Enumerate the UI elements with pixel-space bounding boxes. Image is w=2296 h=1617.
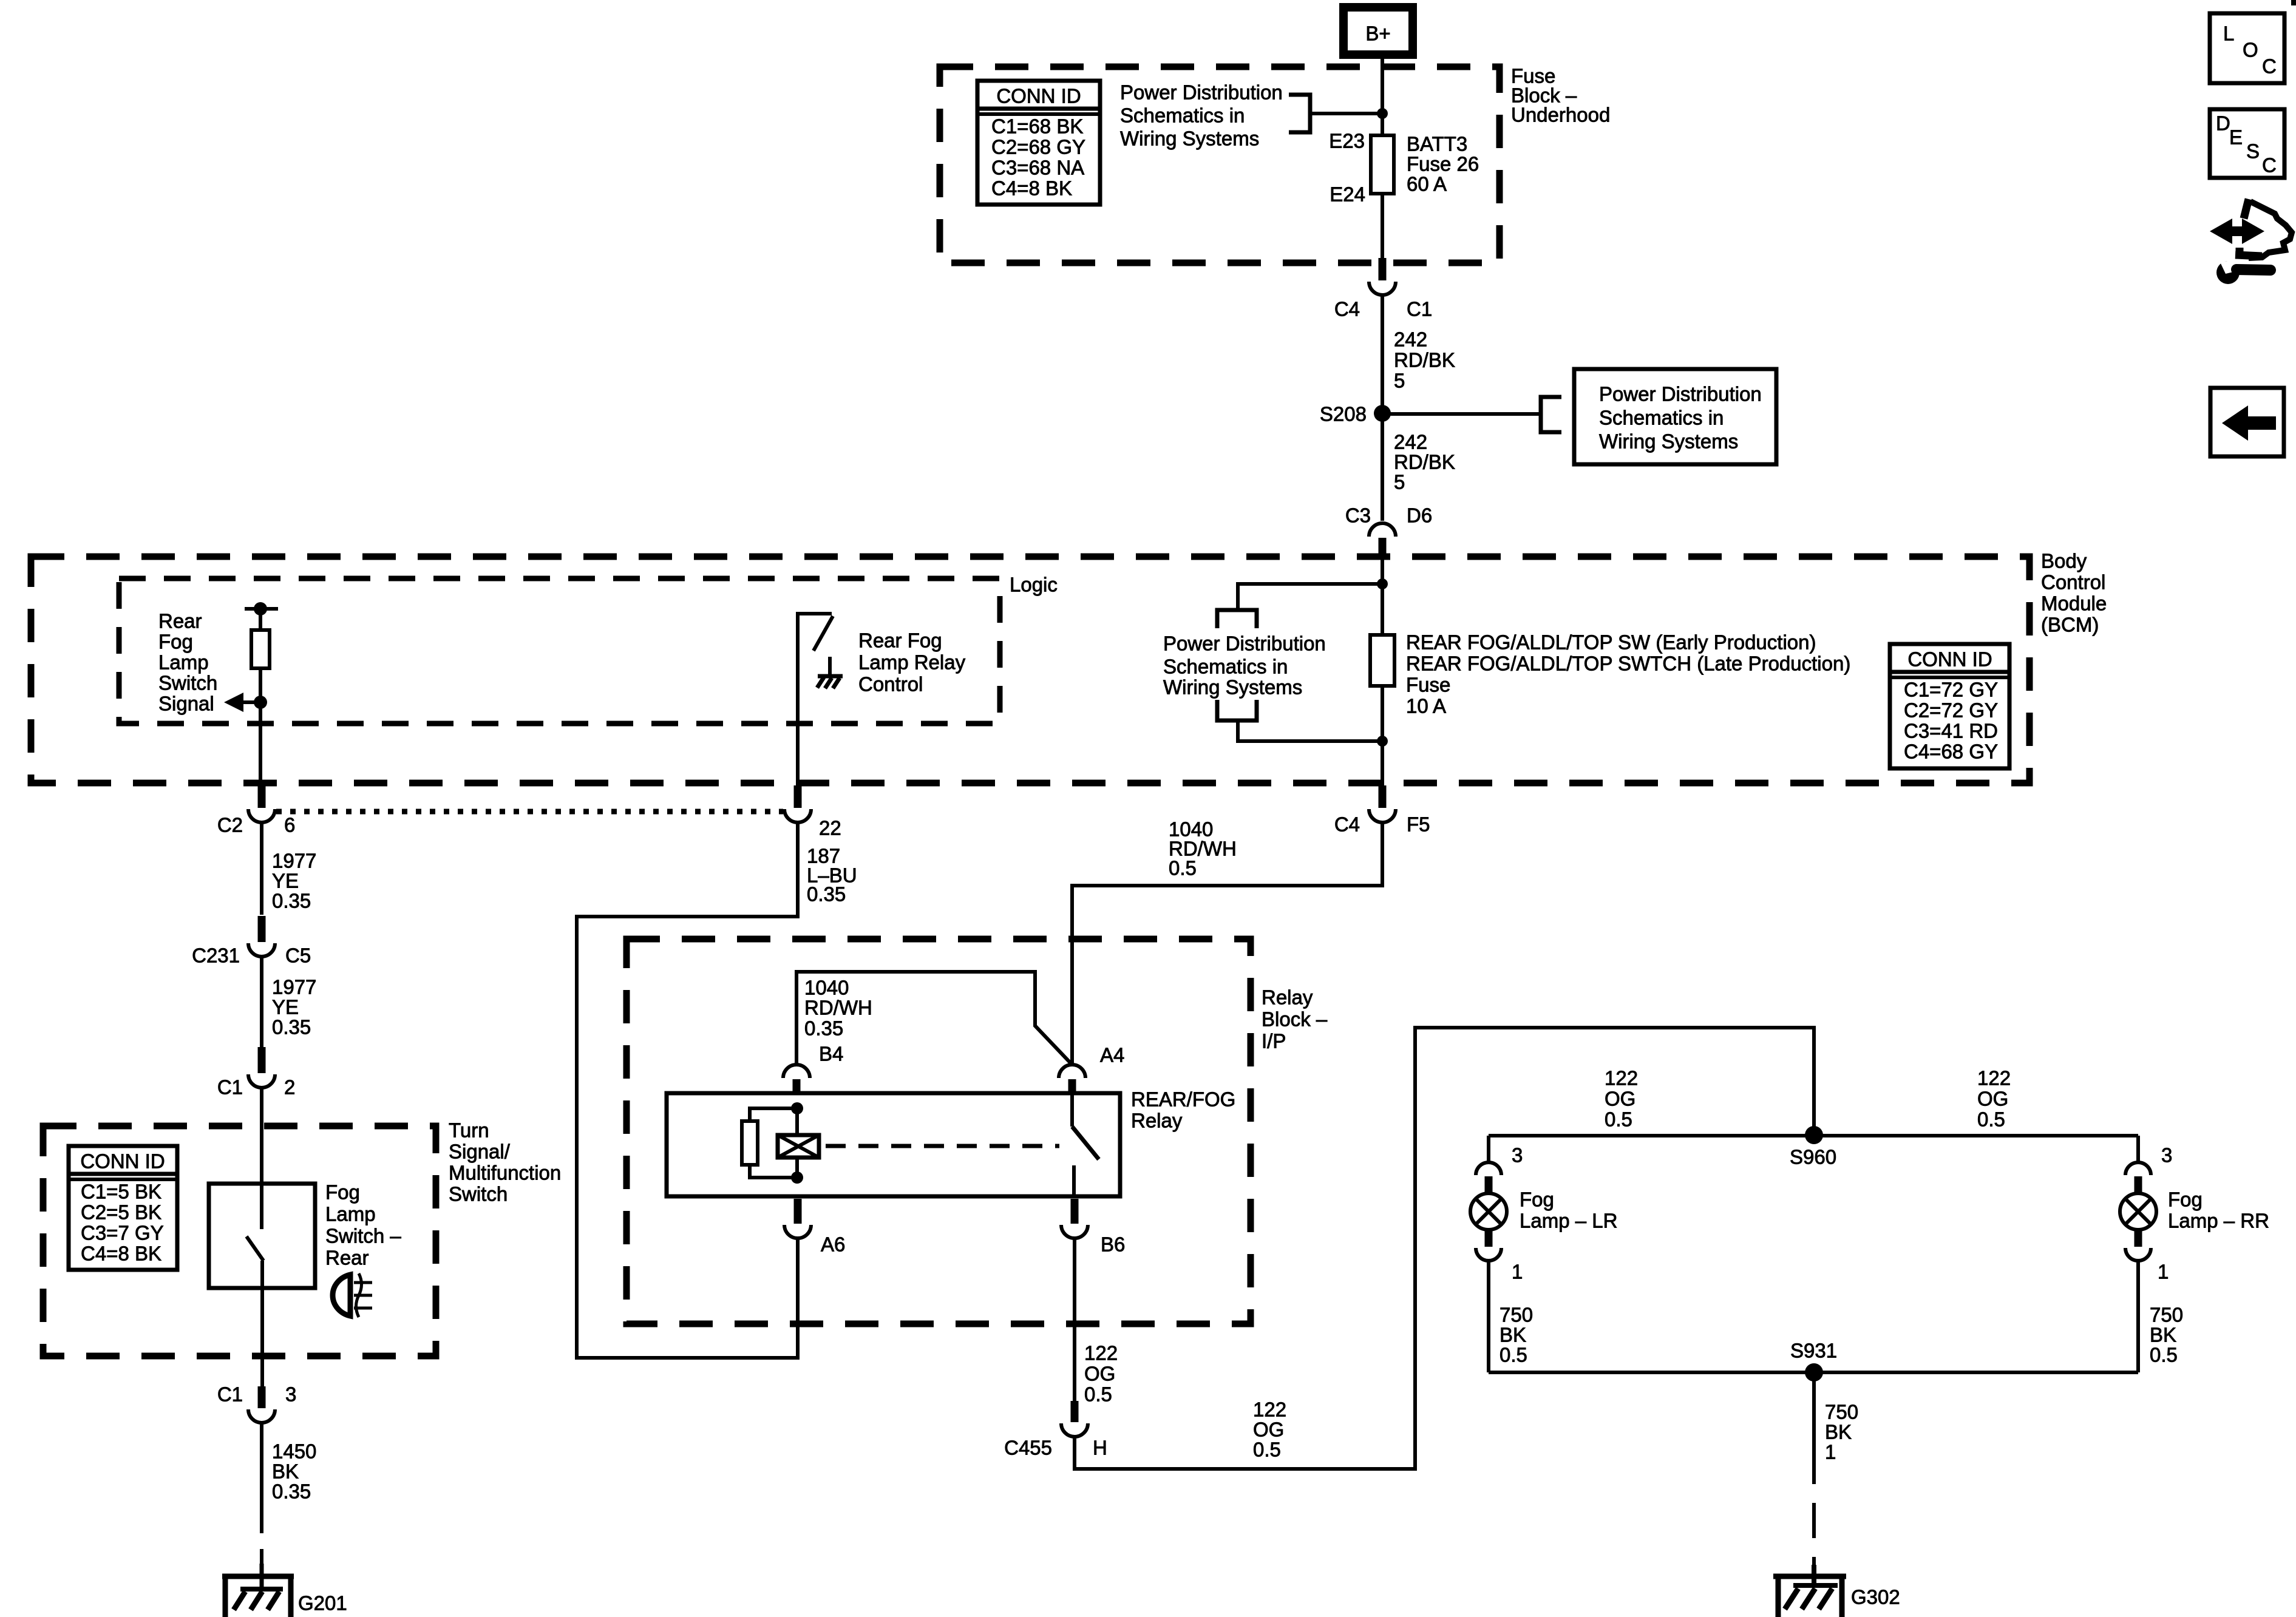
svg-text:O: O <box>2243 39 2258 61</box>
svg-text:Switch: Switch <box>158 672 217 694</box>
svg-text:Body: Body <box>2041 550 2087 572</box>
wire C5 to C1 <box>260 957 263 1047</box>
BCM internal feed junction bottom <box>1238 686 1388 785</box>
svg-text:0.35: 0.35 <box>272 1016 311 1039</box>
svg-text:Turn: Turn <box>449 1119 489 1142</box>
svg-text:Block –: Block – <box>1262 1008 1328 1031</box>
svg-text:Switch –: Switch – <box>325 1225 401 1247</box>
svg-text:S208: S208 <box>1320 403 1367 425</box>
fog lamp RR terminal 1 label <box>2158 1261 2169 1283</box>
svg-text:B4: B4 <box>819 1043 843 1065</box>
svg-text:Fuse 26: Fuse 26 <box>1407 153 1479 175</box>
rear fog lamp switch signal resistor circuit <box>224 602 278 785</box>
svg-text:3: 3 <box>2161 1144 2172 1167</box>
fuse BATT3 value label <box>1407 133 1479 195</box>
svg-text:Fog: Fog <box>1520 1188 1554 1211</box>
svg-text:C455: C455 <box>1004 1437 1052 1459</box>
svg-text:2: 2 <box>284 1076 295 1099</box>
power distribution reference text top <box>1120 81 1283 150</box>
wire label 750 BK 0.5 right <box>2150 1304 2183 1366</box>
wire B6 to C455 <box>1073 1238 1076 1401</box>
wire label 750 BK 0.5 left <box>1500 1304 1533 1366</box>
svg-text:122: 122 <box>1084 1342 1118 1364</box>
svg-text:Schematics in: Schematics in <box>1599 407 1724 429</box>
svg-text:F5: F5 <box>1407 813 1430 836</box>
power distribution box text <box>1599 383 1762 453</box>
relay terminal A6 <box>784 1199 845 1256</box>
REAR/FOG relay label <box>1131 1088 1235 1132</box>
svg-text:OG: OG <box>1605 1088 1635 1110</box>
wire pin2 into switch <box>260 1088 263 1229</box>
svg-text:YE: YE <box>272 996 299 1019</box>
svg-text:Module: Module <box>2041 592 2107 615</box>
svg-text:3: 3 <box>1512 1144 1523 1167</box>
svg-text:0.5: 0.5 <box>1084 1383 1112 1406</box>
svg-text:C1=68 BK: C1=68 BK <box>991 115 1083 138</box>
svg-text:750: 750 <box>1825 1401 1858 1423</box>
svg-text:5: 5 <box>1394 471 1405 493</box>
svg-text:Lamp: Lamp <box>158 651 209 674</box>
svg-text:C4=68 GY: C4=68 GY <box>1904 741 1998 763</box>
svg-text:C3: C3 <box>1345 504 1371 527</box>
svg-text:OG: OG <box>1253 1419 1284 1441</box>
svg-text:122: 122 <box>1605 1067 1638 1090</box>
svg-text:Power Distribution: Power Distribution <box>1599 383 1762 405</box>
DESC icon box <box>2210 109 2284 178</box>
svg-text:1450: 1450 <box>272 1440 316 1463</box>
wire fuse to C4 connector <box>1381 194 1384 261</box>
wire pin3 to ground solid <box>260 1423 263 1505</box>
back arrow icon box <box>2210 388 2284 456</box>
svg-text:BK: BK <box>1825 1421 1852 1443</box>
connector C455 pin H <box>1004 1401 1107 1459</box>
bracket to power distribution BCM bottom <box>1217 700 1257 720</box>
svg-text:C2=72 GY: C2=72 GY <box>1904 699 1998 722</box>
wire label 1977 YE 0.35 upper <box>272 850 316 912</box>
wire C455 to S960 <box>1075 1028 1814 1469</box>
svg-text:RD/BK: RD/BK <box>1394 349 1455 371</box>
splice S208 label <box>1320 403 1367 425</box>
svg-text:0.35: 0.35 <box>807 883 846 906</box>
svg-text:1977: 1977 <box>272 850 316 872</box>
fuse block underhood dashed box <box>940 67 1500 263</box>
svg-text:CONN ID: CONN ID <box>1907 648 1992 671</box>
hand with double arrow and wrench icon <box>2210 199 2292 284</box>
svg-text:Signal: Signal <box>158 693 214 715</box>
dashed wire to G302 <box>1812 1503 1816 1575</box>
pin E24 <box>1330 183 1365 206</box>
wire label 187 L-BU 0.35 <box>807 845 857 906</box>
power distribution reference text BCM <box>1163 632 1326 699</box>
fog lamp RR <box>2120 1136 2156 1372</box>
connector C1 pin 2 switch input <box>217 1047 296 1099</box>
svg-text:CONN ID: CONN ID <box>996 85 1081 107</box>
svg-text:(BCM): (BCM) <box>2041 614 2099 636</box>
svg-text:Wiring Systems: Wiring Systems <box>1599 430 1738 453</box>
fuse block underhood label <box>1511 65 1610 126</box>
svg-text:60 A: 60 A <box>1407 173 1447 195</box>
splice S931 <box>1805 1363 1823 1381</box>
battery feed B+ symbol <box>1343 7 1413 55</box>
dashed wire to G201 <box>260 1505 263 1573</box>
fog lamp RR name label <box>2168 1188 2269 1232</box>
bracket to power distribution box <box>1541 397 1561 432</box>
svg-text:C2=68 GY: C2=68 GY <box>991 136 1085 158</box>
connector C2 pin 22 BCM output <box>784 785 841 839</box>
wire switch to C1 pin3 <box>260 1288 264 1386</box>
svg-text:E24: E24 <box>1330 183 1365 206</box>
fog lamp LR terminal 3 label <box>1512 1144 1523 1167</box>
svg-text:C: C <box>2262 55 2277 78</box>
svg-text:C3=7 GY: C3=7 GY <box>81 1222 164 1244</box>
svg-text:0.5: 0.5 <box>1977 1108 2005 1131</box>
svg-text:0.5: 0.5 <box>1253 1439 1281 1461</box>
bracket to power distribution top <box>1289 95 1310 132</box>
svg-text:A4: A4 <box>1100 1044 1124 1066</box>
svg-text:C4=8 BK: C4=8 BK <box>81 1242 161 1265</box>
wire label 122 OG 0.5 right of S960 <box>1977 1067 2011 1131</box>
svg-text:C4: C4 <box>1334 813 1360 836</box>
svg-text:Wiring Systems: Wiring Systems <box>1120 127 1259 150</box>
wire pin6 to C231 <box>260 822 263 915</box>
svg-text:B6: B6 <box>1101 1233 1125 1256</box>
wire S208 to power distribution box <box>1382 412 1541 416</box>
svg-text:Fog: Fog <box>325 1181 360 1204</box>
relay switch contact <box>1072 1093 1099 1196</box>
wire B+ to fuse BATT3 <box>1381 55 1384 135</box>
svg-text:0.35: 0.35 <box>804 1017 843 1040</box>
relay terminal B4 <box>783 1043 843 1094</box>
svg-text:REAR FOG/ALDL/TOP SWTCH (Late: REAR FOG/ALDL/TOP SWTCH (Late Production… <box>1406 653 1850 675</box>
fuse REAR FOG/ALDL/TOP 10A <box>1370 635 1394 686</box>
wire label 1040 RD/WH 0.5 left <box>1169 818 1237 880</box>
relay block IP label <box>1262 986 1328 1053</box>
wire label 750 BK 1 <box>1825 1401 1858 1463</box>
BCM label <box>2041 550 2107 636</box>
svg-text:D: D <box>2216 112 2230 135</box>
svg-text:Multifunction: Multifunction <box>449 1162 561 1184</box>
fog lamp switch rear text <box>325 1181 401 1269</box>
wire S960 rail to fog lamps <box>1489 1134 2138 1137</box>
CONN ID table fuse block <box>977 81 1100 205</box>
splice S931 label <box>1790 1340 1837 1362</box>
splice S208 <box>1374 405 1391 422</box>
svg-text:242: 242 <box>1394 431 1427 453</box>
wire label 122 OG 0.5 at B6 <box>1084 1342 1118 1406</box>
svg-text:750: 750 <box>2150 1304 2183 1326</box>
pin E23 <box>1329 130 1365 152</box>
wire S931 down solid <box>1812 1372 1816 1484</box>
wire bracket to node <box>1310 112 1382 115</box>
svg-text:E23: E23 <box>1329 130 1365 152</box>
svg-text:242: 242 <box>1394 328 1427 351</box>
svg-text:1: 1 <box>2158 1261 2169 1283</box>
wire label 242 RD/BK 5 upper <box>1394 328 1455 392</box>
relay terminal B6 <box>1061 1199 1125 1256</box>
jumper wire B4 to A4 <box>796 972 1072 1065</box>
svg-text:BK: BK <box>1500 1324 1526 1346</box>
svg-text:C1: C1 <box>217 1383 243 1406</box>
svg-text:Power Distribution: Power Distribution <box>1163 632 1326 655</box>
svg-text:Schematics in: Schematics in <box>1163 656 1288 678</box>
fog lamp switch contact <box>246 1236 263 1288</box>
svg-text:Fuse: Fuse <box>1406 674 1450 696</box>
turn signal multifunction switch dashed box <box>43 1126 436 1356</box>
fog lamp LR terminal 1 label <box>1512 1261 1523 1283</box>
svg-text:Power Distribution: Power Distribution <box>1120 81 1283 104</box>
svg-text:122: 122 <box>1253 1398 1286 1421</box>
CONN ID table BCM <box>1890 644 2009 768</box>
connector C3-D6 BCM input <box>1345 504 1432 559</box>
splice S960 label <box>1790 1146 1836 1168</box>
svg-text:Signal/: Signal/ <box>449 1141 511 1163</box>
dotted connector interface line C2 <box>276 809 783 815</box>
svg-text:S960: S960 <box>1790 1146 1836 1168</box>
fog lamp LR name label <box>1520 1188 1617 1232</box>
svg-text:Rear: Rear <box>158 610 202 632</box>
wire label 122 OG 0.5 bottom run <box>1253 1398 1286 1461</box>
CONN ID table turn signal switch <box>69 1146 177 1270</box>
svg-text:BATT3: BATT3 <box>1407 133 1467 155</box>
fuse REAR FOG label <box>1406 631 1850 717</box>
svg-text:C1=5 BK: C1=5 BK <box>81 1181 161 1203</box>
svg-text:YE: YE <box>272 870 299 892</box>
svg-text:Fog: Fog <box>158 631 193 653</box>
svg-text:C1: C1 <box>1407 298 1432 320</box>
svg-text:C1: C1 <box>217 1076 243 1099</box>
svg-text:C2=5 BK: C2=5 BK <box>81 1201 161 1224</box>
svg-text:C3=41 RD: C3=41 RD <box>1904 720 1998 742</box>
power distribution reference box <box>1574 369 1776 464</box>
svg-text:C3=68 NA: C3=68 NA <box>991 157 1084 179</box>
svg-text:C1=72 GY: C1=72 GY <box>1904 679 1998 701</box>
svg-text:E: E <box>2229 126 2243 149</box>
wire label 242 RD/BK 5 lower <box>1394 431 1455 493</box>
svg-text:6: 6 <box>284 814 295 836</box>
svg-text:REAR FOG/ALDL/TOP SW (Early Pr: REAR FOG/ALDL/TOP SW (Early Production) <box>1406 631 1816 654</box>
connector C1 pin 3 switch output <box>217 1383 297 1423</box>
svg-text:1: 1 <box>1825 1441 1836 1463</box>
svg-text:BK: BK <box>2150 1324 2176 1346</box>
wire label 122 OG 0.5 left of S960 <box>1605 1067 1638 1131</box>
ground G302 label <box>1851 1586 1900 1609</box>
svg-text:1040: 1040 <box>804 977 849 999</box>
svg-text:S: S <box>2246 140 2260 163</box>
svg-text:C2: C2 <box>217 814 243 836</box>
connector C2 pin 6 BCM output <box>217 785 296 836</box>
svg-text:CONN ID: CONN ID <box>80 1150 165 1173</box>
wire ground rail S931 <box>1489 1371 2138 1374</box>
splice S960 <box>1805 1126 1823 1144</box>
body control module dashed box <box>31 557 2029 783</box>
svg-text:0.5: 0.5 <box>1605 1108 1632 1131</box>
fog lamp RR terminal 3 label <box>2161 1144 2172 1167</box>
wire label 1040 RD/WH 0.35 <box>804 977 872 1040</box>
svg-text:Control: Control <box>2041 571 2105 594</box>
wire label 1977 YE 0.35 lower <box>272 976 316 1039</box>
svg-text:0.35: 0.35 <box>272 890 311 912</box>
svg-text:Switch: Switch <box>449 1183 508 1205</box>
svg-text:Rear: Rear <box>325 1247 369 1269</box>
svg-text:C4=8 BK: C4=8 BK <box>991 177 1072 200</box>
svg-text:G302: G302 <box>1851 1586 1900 1609</box>
svg-text:Logic: Logic <box>1010 574 1058 596</box>
relay block IP dashed box <box>627 939 1251 1324</box>
svg-text:L: L <box>2223 22 2234 45</box>
rear fog lamp relay control driver <box>798 614 843 785</box>
svg-text:122: 122 <box>1977 1067 2011 1090</box>
svg-text:G201: G201 <box>298 1592 347 1615</box>
svg-text:H: H <box>1093 1437 1107 1459</box>
svg-text:Schematics in: Schematics in <box>1120 104 1245 127</box>
connector C231-C5 inline <box>192 916 311 967</box>
svg-text:Relay: Relay <box>1131 1110 1183 1132</box>
svg-text:B+: B+ <box>1365 22 1390 45</box>
svg-text:RD/BK: RD/BK <box>1394 451 1455 473</box>
svg-text:C231: C231 <box>192 944 240 967</box>
fuse BATT3 Fuse 26 60A <box>1371 135 1394 194</box>
svg-text:750: 750 <box>1500 1304 1533 1326</box>
svg-text:A6: A6 <box>821 1233 845 1256</box>
wire pin22 to relay A6 <box>577 822 798 1358</box>
svg-text:C5: C5 <box>285 944 311 967</box>
svg-text:Lamp – LR: Lamp – LR <box>1520 1210 1617 1232</box>
svg-text:3: 3 <box>285 1383 296 1406</box>
svg-text:S931: S931 <box>1790 1340 1837 1362</box>
svg-text:Underhood: Underhood <box>1511 104 1610 126</box>
svg-text:RD/WH: RD/WH <box>804 997 872 1019</box>
svg-text:22: 22 <box>819 817 841 839</box>
svg-text:C4: C4 <box>1334 298 1360 320</box>
svg-text:Wiring Systems: Wiring Systems <box>1163 676 1302 699</box>
svg-text:REAR/FOG: REAR/FOG <box>1131 1088 1235 1111</box>
svg-text:Rear Fog: Rear Fog <box>858 629 942 652</box>
BCM internal feed junction top <box>1238 558 1388 635</box>
svg-text:D6: D6 <box>1407 504 1432 527</box>
bracket to power distribution BCM top <box>1217 610 1257 628</box>
LOC icon box <box>2210 13 2284 83</box>
svg-text:OG: OG <box>1084 1363 1115 1385</box>
svg-text:BK: BK <box>272 1460 299 1483</box>
connector C4-C1 fuse block output <box>1334 258 1432 320</box>
relay actuation dashed line <box>826 1144 1059 1148</box>
wire label 1450 BK 0.35 <box>272 1440 316 1503</box>
svg-text:I/P: I/P <box>1262 1030 1286 1053</box>
logic label <box>1010 574 1058 596</box>
wire C1 to S208 <box>1381 295 1384 413</box>
svg-text:1977: 1977 <box>272 976 316 998</box>
svg-text:OG: OG <box>1977 1088 2008 1110</box>
logic dashed box <box>119 578 1000 724</box>
svg-text:Relay: Relay <box>1262 986 1313 1009</box>
svg-text:10 A: 10 A <box>1406 695 1446 717</box>
svg-text:C: C <box>2262 154 2277 177</box>
rear fog lamp switch signal text <box>158 610 217 715</box>
svg-text:0.5: 0.5 <box>1169 857 1197 880</box>
svg-text:Lamp – RR: Lamp – RR <box>2168 1210 2269 1232</box>
relay coil with suppression resistor <box>742 1102 819 1184</box>
wire F5 to relay A4 <box>1072 822 1382 1065</box>
rear fog lamp relay control text <box>858 629 966 696</box>
ground G201 label <box>298 1592 347 1615</box>
junction above fuse BATT3 <box>1377 108 1388 119</box>
connector C4 pin F5 BCM output <box>1334 785 1430 836</box>
svg-text:5: 5 <box>1394 370 1405 392</box>
svg-text:0.5: 0.5 <box>2150 1344 2178 1366</box>
svg-text:Lamp Relay: Lamp Relay <box>858 651 966 674</box>
page corner mark <box>2291 0 2296 5</box>
relay terminal A4 <box>1059 1044 1124 1094</box>
svg-text:0.5: 0.5 <box>1500 1344 1527 1366</box>
REAR/FOG relay box <box>667 1093 1120 1196</box>
fog lamp switch rear box <box>209 1184 315 1288</box>
ground G302 <box>1773 1565 1846 1617</box>
svg-text:Fog: Fog <box>2168 1188 2203 1211</box>
fog lamp icon <box>333 1273 372 1317</box>
ground G201 <box>222 1564 294 1617</box>
wire S208 to C3 connector <box>1381 421 1384 521</box>
svg-text:0.35: 0.35 <box>272 1480 311 1503</box>
svg-text:Control: Control <box>858 673 923 696</box>
fog lamp LR <box>1470 1136 1507 1372</box>
svg-text:1: 1 <box>1512 1261 1523 1283</box>
svg-text:Lamp: Lamp <box>325 1203 376 1225</box>
turn signal multifunction switch label <box>449 1119 561 1205</box>
